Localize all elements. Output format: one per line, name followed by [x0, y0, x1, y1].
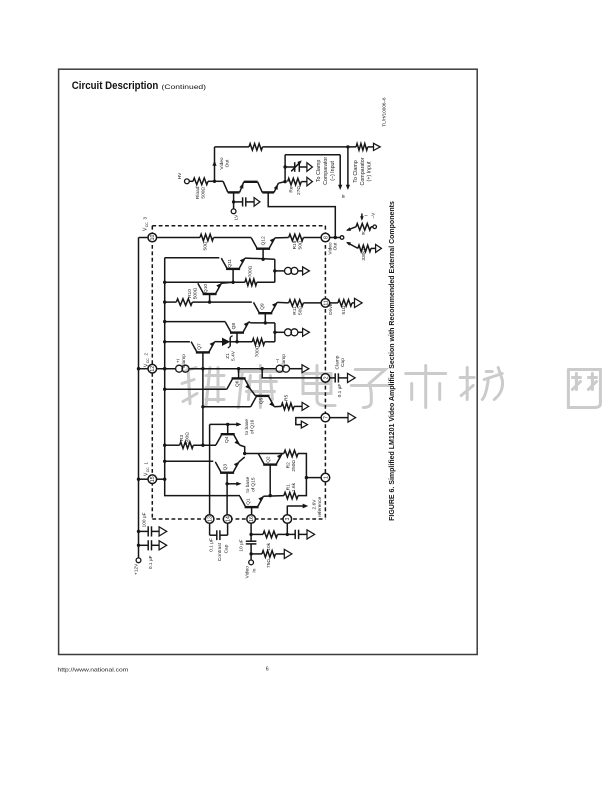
svg-text:R3: R3 — [179, 435, 185, 441]
svg-text:In: In — [251, 568, 257, 572]
svg-text:51Ω: 51Ω — [341, 305, 347, 314]
svg-text:10 µF: 10 µF — [239, 539, 245, 551]
svg-text:2: 2 — [144, 352, 149, 355]
svg-text:Comparator: Comparator — [360, 157, 366, 185]
svg-text:to base: to base — [245, 477, 251, 493]
svg-text:250Ω: 250Ω — [291, 460, 297, 472]
svg-text:Q1: Q1 — [246, 498, 252, 505]
svg-text:500Ω: 500Ω — [185, 432, 191, 444]
svg-text:16: 16 — [249, 516, 255, 522]
svg-text:5.4V: 5.4V — [231, 350, 237, 361]
svg-text:Clamp: Clamp — [281, 354, 287, 368]
svg-text:Re: Re — [288, 186, 294, 192]
svg-text:13: 13 — [208, 516, 214, 522]
svg-text:Drive: Drive — [328, 303, 334, 315]
svg-text:+I: +I — [175, 359, 181, 363]
svg-text:R10: R10 — [187, 289, 193, 298]
svg-text:6: 6 — [266, 667, 269, 673]
svg-text:or: or — [360, 231, 365, 236]
svg-text:50Ω: 50Ω — [203, 241, 209, 250]
svg-text:Contrast: Contrast — [217, 542, 223, 561]
svg-text:27Ω: 27Ω — [296, 186, 302, 195]
svg-text:14: 14 — [226, 516, 232, 522]
svg-text:10k: 10k — [266, 542, 272, 550]
svg-text:Rload: Rload — [195, 186, 201, 199]
svg-text:TL/H/10006–6: TL/H/10006–6 — [382, 97, 387, 127]
svg-text:3: 3 — [285, 517, 291, 520]
svg-text:8: 8 — [323, 236, 329, 239]
svg-text:(Continued): (Continued) — [162, 84, 207, 91]
svg-text:Q6: Q6 — [235, 380, 241, 387]
svg-text:–I: –I — [275, 359, 281, 363]
svg-text:or: or — [341, 194, 346, 199]
svg-text:of Q16: of Q16 — [250, 419, 256, 434]
svg-text:Q2: Q2 — [266, 456, 272, 463]
svg-text:I: I — [364, 215, 369, 216]
svg-text:Q11: Q11 — [227, 259, 233, 268]
svg-text:700Ω: 700Ω — [248, 265, 254, 277]
svg-text:R1: R1 — [285, 484, 291, 490]
svg-text:http://www.national.com: http://www.national.com — [58, 668, 129, 674]
svg-text:Cap: Cap — [224, 544, 230, 553]
svg-text:Video: Video — [245, 566, 251, 579]
svg-text:R19: R19 — [292, 240, 298, 249]
svg-text:Z1: Z1 — [225, 353, 231, 359]
svg-text:FIGURE 6. Simplified LM1201 Vi: FIGURE 6. Simplified LM1201 Video Amplif… — [389, 201, 396, 521]
svg-text:reference: reference — [317, 497, 323, 518]
svg-text:1: 1 — [144, 461, 149, 464]
svg-text:HV: HV — [177, 172, 183, 179]
svg-text:R2: R2 — [285, 462, 291, 468]
svg-text:(–) Input: (–) Input — [330, 161, 336, 181]
svg-text:3: 3 — [143, 216, 148, 219]
svg-text:1.6k: 1.6k — [291, 482, 297, 492]
svg-text:2: 2 — [323, 376, 329, 379]
svg-text:Q9: Q9 — [260, 303, 266, 310]
svg-text:Q10: Q10 — [203, 284, 209, 293]
svg-text:Q4: Q4 — [224, 436, 230, 443]
svg-text:0.1 µF: 0.1 µF — [148, 555, 154, 569]
svg-text:Q12: Q12 — [261, 236, 267, 245]
svg-text:Cap: Cap — [340, 358, 346, 367]
svg-text:10: 10 — [150, 235, 156, 241]
svg-text:Circuit Description: Circuit Description — [72, 80, 159, 92]
svg-text:Clamp: Clamp — [335, 355, 341, 369]
svg-text:700Ω: 700Ω — [255, 345, 261, 357]
svg-text:R5: R5 — [283, 394, 289, 400]
svg-text:100 µF: 100 µF — [142, 512, 148, 527]
svg-text:CC: CC — [145, 222, 149, 227]
svg-text:R11: R11 — [292, 306, 298, 315]
svg-text:50Ω: 50Ω — [297, 306, 303, 315]
svg-text:Q5: Q5 — [259, 397, 265, 404]
svg-text:Out: Out — [224, 159, 230, 167]
svg-text:500Ω: 500Ω — [192, 287, 198, 299]
svg-text:7: 7 — [323, 416, 329, 419]
svg-text:To Clamp: To Clamp — [353, 160, 359, 182]
svg-text:Clamp: Clamp — [181, 354, 187, 368]
svg-text:330Ω: 330Ω — [361, 249, 367, 261]
svg-text:Video: Video — [219, 157, 225, 170]
svg-text:LV: LV — [233, 214, 239, 220]
svg-text:500Ω: 500Ω — [201, 187, 207, 199]
svg-text:Q7: Q7 — [197, 343, 203, 350]
svg-text:of Q15: of Q15 — [251, 477, 257, 492]
svg-text:15: 15 — [150, 476, 156, 482]
svg-text:CC: CC — [146, 358, 150, 363]
svg-text:Q3: Q3 — [223, 464, 229, 471]
svg-text:0.1 µF: 0.1 µF — [209, 538, 215, 552]
svg-text:0.1 µF: 0.1 µF — [337, 384, 343, 398]
svg-text:Q8: Q8 — [231, 323, 237, 330]
svg-text:50Ω: 50Ω — [297, 240, 303, 249]
svg-text:(+) Input: (+) Input — [367, 161, 373, 181]
svg-text:CC: CC — [146, 467, 150, 472]
svg-text:2.6V: 2.6V — [311, 499, 317, 510]
svg-text:12: 12 — [150, 366, 156, 372]
svg-text:Comparator: Comparator — [323, 157, 329, 185]
svg-text:+12V: +12V — [134, 563, 140, 575]
svg-text:To Clamp: To Clamp — [316, 160, 322, 182]
svg-text:75Ω: 75Ω — [266, 559, 272, 568]
svg-text:Out: Out — [333, 242, 339, 250]
svg-text:to base: to base — [244, 419, 250, 435]
svg-text:–V: –V — [371, 212, 377, 219]
svg-text:1: 1 — [323, 476, 329, 479]
